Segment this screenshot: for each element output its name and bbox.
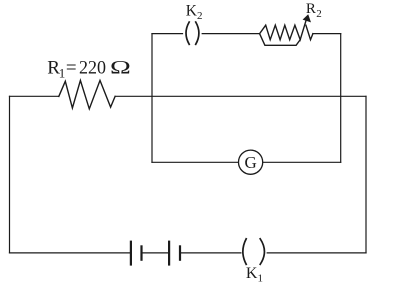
wire middle horizontal right of R1 (115, 95, 366, 97)
svg-text:K2: K2 (186, 2, 203, 22)
wire G branch left (152, 161, 239, 163)
rheostat R2 trapezoid body (260, 34, 301, 46)
wire bottom segment between cells (142, 252, 170, 254)
galvanometer G circle (239, 150, 263, 174)
key K1 right contact (260, 239, 264, 264)
battery cell 1 long plate (130, 242, 132, 265)
wire left vertical outer (9, 96, 11, 253)
battery cell 2 long plate (168, 242, 170, 265)
wire inner loop right vertical (340, 34, 342, 163)
wire bottom segment K1 to right corner (267, 252, 366, 254)
arrowhead of rheostat R2 (303, 14, 311, 22)
svg-text:R: R (306, 1, 316, 17)
wire top segment K2 to R2 (202, 33, 259, 35)
wire top segment right of R2 (313, 33, 341, 35)
resistor R1 (59, 80, 115, 109)
wire bottom segment left of battery (10, 252, 131, 254)
wire middle horizontal left of R1 (10, 95, 59, 97)
wire G branch right (263, 161, 341, 163)
battery cell 2 short plate (179, 246, 181, 259)
svg-text:2: 2 (316, 8, 322, 20)
wire top segment left of K2 (152, 33, 183, 35)
wire inner loop left vertical (151, 34, 153, 163)
key K1 left contact (243, 239, 246, 264)
key K2 right contact (196, 22, 199, 44)
rheostat R2 tail zigzag (306, 25, 313, 40)
wire right vertical outer (365, 96, 367, 253)
svg-text:Ω: Ω (110, 57, 131, 78)
svg-text:K1: K1 (246, 265, 263, 283)
wire bottom segment battery to K1 (180, 252, 241, 254)
svg-text:G: G (244, 153, 256, 172)
resistor R2 (rheostat zigzag with arrow shaft) (260, 19, 307, 40)
svg-text:1: 1 (59, 66, 66, 81)
key K2 left contact (186, 22, 189, 44)
svg-text:=: = (66, 57, 77, 78)
battery cell 1 short plate (140, 246, 142, 259)
svg-text:220: 220 (79, 57, 106, 78)
